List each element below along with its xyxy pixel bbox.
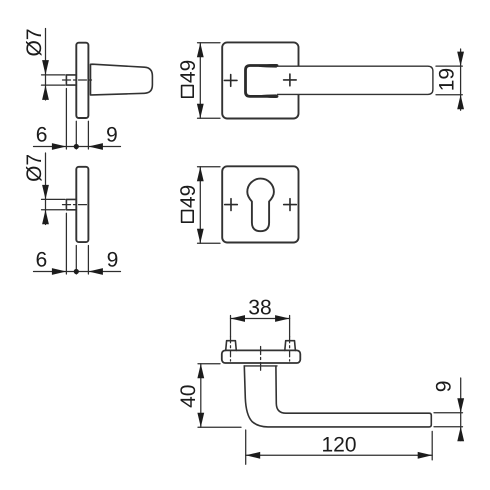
lever bar C (white fill covers rosette edge) — [262, 66, 433, 94]
rosette side profile B — [76, 167, 88, 242]
dim 49 square symbol D — [182, 211, 194, 223]
dim 9 arrows E — [457, 398, 464, 413]
dim 9 ext lines E — [434, 412, 463, 414]
dim 40 label E — [180, 385, 195, 407]
screw cross right D — [284, 199, 297, 211]
dim 49 label C — [180, 61, 195, 83]
dim Ø7 ext lines B — [42, 198, 66, 200]
dim 49 label D — [180, 186, 195, 208]
screw cross left D — [225, 199, 238, 211]
dim 49 ext lines C — [198, 42, 221, 44]
neck shading bottom C — [260, 94, 277, 98]
dim 6/9 line B — [34, 271, 121, 273]
dim 38 line E — [231, 318, 290, 320]
lever grip side profile A — [91, 64, 153, 95]
dim Ø7 label A — [26, 30, 42, 56]
dim 6/9 node dot B — [74, 269, 79, 274]
dim 9 label E — [436, 382, 451, 392]
rosette side profile A — [76, 43, 88, 118]
handle centerline E — [260, 347, 262, 371]
dim 19 line C — [460, 49, 462, 110]
dim 6/9 line A — [34, 146, 121, 148]
neck junction line E — [244, 365, 277, 367]
square rosette D — [222, 166, 298, 242]
handle outline E — [244, 366, 431, 427]
dim 38 ext lines E — [230, 316, 232, 337]
dim 40 arrows E — [197, 364, 204, 379]
centerline B — [63, 204, 90, 206]
spindle stub B — [66, 199, 76, 209]
dim 9 label B — [108, 252, 118, 267]
screw boss right E — [285, 341, 296, 351]
dim 19 arrows C — [457, 52, 464, 67]
dim 40 line E — [200, 364, 202, 427]
dim 6 label B — [37, 252, 47, 267]
dim 9 line E — [460, 378, 462, 441]
dim 6/9 arrows A — [52, 143, 67, 150]
neck shading top C — [259, 64, 277, 68]
dim 120 ext lines E — [245, 430, 247, 464]
dim 6/9 arrows B — [52, 268, 67, 275]
dim 49 line C — [199, 43, 201, 119]
screw cross left C — [224, 75, 237, 87]
dim 49 arrows C — [197, 43, 204, 58]
dim 49 ext lines D — [198, 166, 221, 168]
square rosette C — [222, 42, 298, 118]
dim Ø7 ext lines A — [42, 74, 66, 76]
dim 49 arrows D — [197, 167, 204, 182]
dim 6/9 ext lines B — [65, 213, 67, 274]
dim Ø7 label B — [26, 155, 42, 181]
dim 9 label A — [107, 127, 117, 142]
dim Ø7 line A — [45, 29, 47, 101]
euro cylinder hole D — [247, 179, 274, 232]
screw boss left E — [226, 341, 237, 351]
dim 120 line E — [246, 454, 433, 456]
dim 6/9 node dot A — [74, 144, 79, 149]
centerline A — [63, 79, 94, 81]
dim 19 ext lines C — [436, 65, 462, 67]
dim 120 arrows E — [246, 452, 261, 459]
dim 38 arrows E — [231, 315, 246, 322]
dim 19 label C — [439, 69, 454, 90]
spindle stub A — [66, 75, 76, 85]
dim 6/9 ext lines A — [65, 89, 67, 150]
dim 40 ext lines E — [198, 363, 220, 365]
dim Ø7 line B — [45, 153, 47, 225]
screw cross right C — [284, 74, 297, 86]
dim 49 square symbol C — [182, 86, 194, 98]
boss centerline right E — [289, 337, 291, 361]
dim 49 line D — [199, 167, 201, 243]
boss centerline left E — [230, 337, 232, 361]
dim 6 label A — [37, 127, 47, 142]
dim Ø7 arrows A — [42, 60, 49, 75]
dim 38 label E — [249, 300, 271, 315]
dim Ø7 arrows B — [42, 185, 49, 200]
lever neck C — [246, 66, 278, 97]
rosette plate top view E — [222, 350, 300, 363]
dim 120 label E — [323, 437, 356, 452]
